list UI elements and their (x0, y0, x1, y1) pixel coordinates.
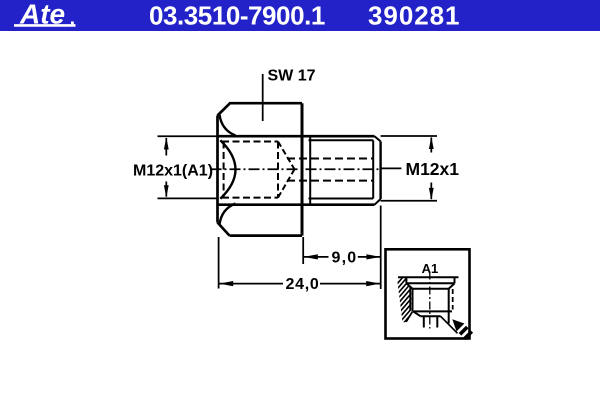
header bar (0, 0, 600, 31)
centerline (211, 168, 380, 170)
port top surface line (398, 276, 459, 278)
arrow down right dim (429, 188, 434, 200)
dimension extension lines right (381, 136, 437, 201)
arrow left 9,0 (304, 254, 318, 259)
shaft end face (379, 141, 381, 199)
dimension arrow stems right (430, 138, 432, 200)
hex chamfer arc middle facet (220, 140, 235, 199)
port body bottom line (413, 310, 453, 312)
port seat diagonal left (413, 311, 420, 316)
port body top line (413, 288, 449, 290)
arrow right 24,0 (366, 281, 380, 286)
port taper left (406, 283, 412, 289)
port flange right edge (454, 277, 456, 283)
extension line below head right face (302, 237, 304, 264)
hex chamfer arc bottom facet (220, 204, 236, 225)
svg-text:03.3510-7900.1: 03.3510-7900.1 (149, 1, 325, 31)
drill cone hidden lines (278, 142, 295, 198)
hex head right face (301, 103, 304, 235)
port seat line (421, 315, 441, 317)
hex chamfer arc top facet (220, 115, 236, 136)
svg-text:24,0: 24,0 (286, 276, 320, 293)
port flange left edge (405, 277, 407, 283)
section hatching (394, 267, 412, 340)
extension line below head left edge (218, 237, 220, 289)
dimension arrowheads (164, 137, 434, 287)
port centerline (429, 272, 431, 329)
svg-text:M12x1: M12x1 (406, 159, 460, 179)
hex facet line top / shaft top outline (218, 135, 375, 138)
detail view A1 box (386, 249, 470, 338)
port body right edge (448, 289, 450, 324)
internal thread left hidden line (223, 142, 225, 198)
port taper right (449, 283, 455, 288)
svg-text:9,0: 9,0 (332, 250, 358, 267)
port pipe bore left (423, 316, 425, 327)
internal thread hidden lines (222, 142, 278, 198)
port thread hidden line (452, 289, 454, 310)
svg-text:M12x1(A1): M12x1(A1) (133, 163, 213, 180)
SW 17 leader line (262, 74, 264, 121)
extension line below shaft end (380, 206, 382, 290)
port flange bottom (406, 282, 454, 284)
wall break diagonal (406, 312, 412, 322)
ATE logo (14, 0, 76, 30)
sectioned wall edge (409, 287, 411, 311)
24,0 dimension line (219, 283, 380, 285)
arrow down left dim (164, 185, 169, 197)
M12x1 leader (381, 167, 402, 169)
port body left edge (412, 289, 414, 312)
shaft end chamfer corners (375, 136, 381, 205)
shaft thread root lines (309, 140, 374, 198)
dimension extension lines left (158, 135, 218, 137)
port seat diagonal right (441, 316, 458, 333)
direction arrow (452, 319, 473, 340)
9,0 dimension line (304, 256, 381, 258)
svg-text:390281: 390281 (368, 1, 460, 31)
arrow left 24,0 (219, 281, 233, 286)
arrow up right dim (429, 137, 434, 149)
through bore hidden lines (287, 159, 373, 181)
internal thread end hidden line (277, 142, 279, 198)
arrow right 9,0 (366, 254, 380, 259)
dimension arrow stems left (165, 138, 167, 197)
arrow up left dim (164, 137, 169, 149)
svg-text:SW 17: SW 17 (268, 68, 316, 85)
port pipe bore right (436, 316, 438, 327)
shaft end chamfer line (372, 140, 374, 198)
hex facet line bottom / shaft bottom outline (219, 203, 375, 206)
hex head outline (218, 103, 303, 235)
shaft thread runout line (309, 136, 311, 205)
